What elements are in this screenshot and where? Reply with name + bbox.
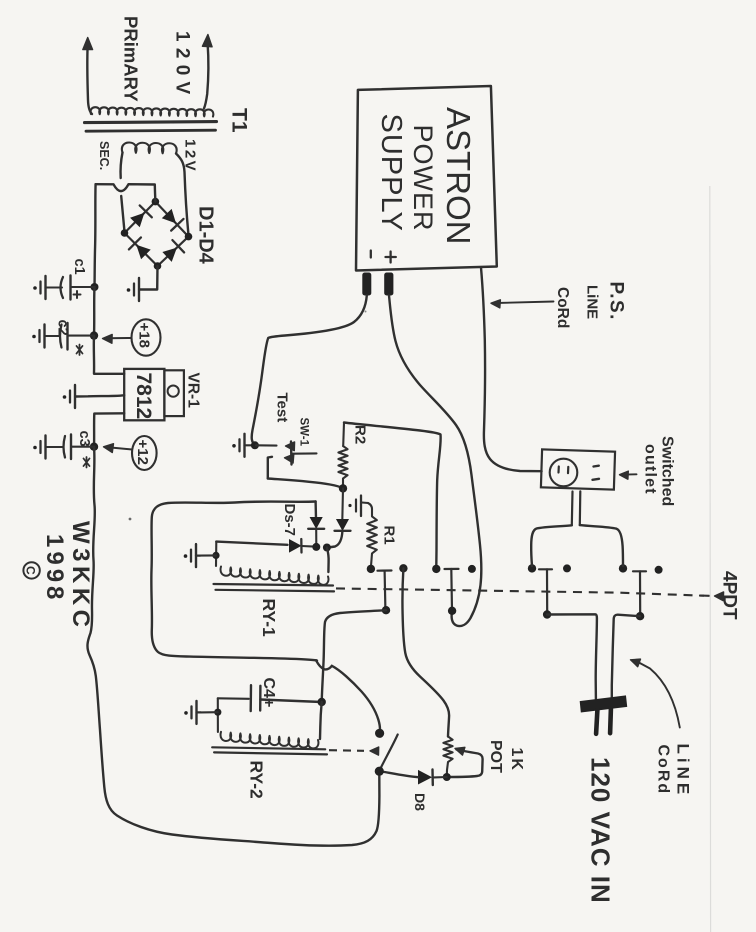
svg-text:VR-1: VR-1	[185, 373, 202, 409]
label RY-1	[259, 599, 279, 638]
arrow 4PDT	[700, 592, 724, 601]
wire 4PDT pole3 throw to line cord left	[547, 614, 597, 699]
label Ds-7	[281, 504, 298, 537]
label CoRd	[655, 745, 672, 796]
arrow P.S. line cord	[491, 300, 554, 308]
node 4PDT pole1 aux contact	[399, 564, 407, 572]
node RY-1 coil right 2	[323, 544, 331, 552]
regulator VR-1 body	[124, 369, 184, 420]
label SW-1	[298, 418, 310, 447]
node RY-2 switch top contact	[375, 729, 384, 738]
label W3KKC	[67, 521, 94, 632]
svg-text:Ds-7: Ds-7	[281, 504, 298, 537]
box switched outlet	[541, 449, 615, 489]
line cord plug body	[581, 696, 627, 712]
svg-text:1K: 1K	[508, 748, 525, 772]
svg-text:7812: 7812	[132, 373, 155, 420]
label +12 circled	[132, 436, 157, 470]
label +18 circled	[132, 319, 161, 355]
ground (bridge)	[127, 278, 140, 301]
label 7812	[132, 373, 155, 420]
label outlet	[642, 444, 659, 495]
label LiNE	[674, 744, 693, 799]
node C3 junction	[90, 443, 98, 451]
wire VR-1 output to C3	[94, 413, 124, 446]
node 4PDT pole1 throw	[382, 606, 390, 614]
label LiNE (P.S.)	[584, 285, 601, 319]
svg-text:+18: +18	[136, 323, 153, 348]
wire RY-2 coil left to ground	[201, 711, 218, 713]
switch 4PDT pole4 bar	[633, 571, 646, 615]
label 12V	[182, 139, 199, 173]
node RY-1 coil left	[212, 552, 219, 559]
node RY-2 coil junction	[318, 698, 326, 706]
wire from plus post to 4PDT pole2 bottom	[389, 296, 481, 627]
wire +12 rail down left side	[87, 447, 379, 846]
label C2	[55, 320, 71, 336]
label POWER	[408, 125, 438, 232]
wire diode to RY-1 coil node	[315, 529, 317, 545]
label copyright symbol	[23, 562, 39, 578]
svg-text:+12: +12	[134, 440, 151, 465]
potentiometer wiper arrow	[449, 747, 483, 777]
svg-text:4PDT: 4PDT	[719, 571, 740, 620]
node POT bottom junction	[443, 773, 451, 781]
node 4PDT pole4 common	[619, 564, 627, 572]
svg-text:C: C	[24, 566, 38, 575]
wire diode to RY-1 coil node	[328, 531, 342, 548]
label C3	[76, 431, 92, 447]
wire RY-1 loop top to diode	[314, 502, 317, 519]
switch 4PDT pole3 bar	[539, 569, 552, 613]
resistor R1	[367, 503, 377, 566]
label * (C3)	[84, 457, 90, 468]
node 4PDT pole2 aux contact	[468, 565, 476, 573]
capacitor C2	[45, 323, 94, 350]
label D1-D4	[195, 206, 217, 265]
transformer T1 primary lead right with arrow	[202, 35, 212, 109]
node 4PDT pole3 throw	[543, 610, 551, 618]
wire RY-2 coil top left	[218, 697, 249, 700]
arrow +18 to rail	[103, 334, 132, 343]
svg-text:120 VAC IN: 120 VAC IN	[586, 757, 616, 904]
node 4PDT pole3 aux contact	[563, 564, 571, 572]
svg-text:C4+: C4+	[260, 678, 277, 708]
svg-text:R2: R2	[352, 425, 369, 444]
node 4PDT pole1 common	[367, 565, 375, 573]
LED DS-7	[290, 539, 315, 553]
node R2 bottom junction	[339, 484, 347, 492]
svg-text:D1-D4: D1-D4	[195, 206, 217, 265]
wire secondary left lead	[121, 153, 123, 179]
node RY-1 coil right	[312, 543, 320, 551]
node bridge right	[185, 233, 193, 241]
arrow RY-2 actuator dashed	[329, 747, 379, 755]
switch SW-1 upper contact arrow	[256, 442, 295, 451]
switch SW-1 lower contact arrow	[268, 454, 294, 478]
svg-text:W3KKC: W3KKC	[67, 521, 94, 632]
diode (right, from R2 node)	[335, 520, 351, 531]
label ASTRON	[440, 107, 477, 245]
ground (C3)	[33, 436, 46, 459]
wire 4PDT pole4 throw to line cord right	[612, 615, 640, 699]
svg-text:c2: c2	[55, 320, 71, 336]
diode D8	[419, 770, 433, 786]
svg-text:outlet: outlet	[642, 444, 659, 495]
scan artifact line	[709, 186, 712, 932]
wire VR-1 ground pin	[76, 395, 124, 396]
capacitor C3	[46, 435, 94, 460]
svg-text:P.S.: P.S.	[606, 282, 627, 321]
label SEC.	[97, 141, 111, 170]
node RY-2 switch common	[375, 767, 384, 776]
ground (SW-1)	[232, 434, 255, 457]
svg-text:RY-1: RY-1	[259, 599, 279, 638]
ground (RY-1)	[184, 544, 200, 567]
label D8	[412, 793, 428, 811]
label C1	[71, 259, 87, 275]
svg-text:CoRd: CoRd	[554, 287, 571, 328]
node bridge left	[121, 229, 129, 237]
svg-text:Switched: Switched	[659, 436, 676, 506]
node 4PDT pole3 common	[528, 564, 536, 572]
node bridge top	[152, 198, 160, 206]
node RY-2 coil left	[214, 709, 221, 716]
svg-text:D8: D8	[412, 793, 428, 811]
svg-text:SEC.: SEC.	[97, 141, 111, 170]
relay RY-1 winding	[221, 567, 329, 585]
ground (VR-1)	[63, 385, 76, 408]
relay RY-1 coil right edge	[327, 548, 329, 573]
svg-text:c3: c3	[76, 431, 92, 447]
svg-text:SW-1: SW-1	[298, 418, 310, 447]
node 4PDT pole2 throw	[448, 607, 456, 615]
relay RY-2 core	[212, 747, 327, 754]
relay RY-1 coil left edge	[215, 542, 217, 566]
switch 4PDT actuator dashed line	[336, 588, 704, 595]
wire outlet left branch to 4PDT pole3	[531, 525, 572, 566]
svg-text:1 2 0 V: 1 2 0 V	[172, 31, 193, 95]
node SW-1 common	[251, 441, 259, 449]
relay RY-2 winding	[221, 732, 319, 749]
wire RY-1 loop (around relay)	[151, 502, 317, 661]
label T1	[228, 108, 251, 133]
wire RY-1 coil left to ground	[200, 554, 216, 556]
diode D1	[131, 205, 152, 226]
label P.S.	[606, 282, 627, 321]
switched outlet socket face	[550, 459, 578, 487]
label Test	[274, 393, 291, 423]
wire D8 to RY-2 switch common	[382, 772, 419, 778]
relay RY-1 core	[214, 584, 335, 591]
wire R2 node down to diode	[341, 488, 344, 520]
transformer T1 core	[85, 122, 217, 132]
diode D3	[129, 237, 150, 258]
switched outlet right slots	[593, 466, 600, 480]
label R1	[381, 526, 398, 545]
arrow line cord	[631, 659, 680, 727]
label SUPPLY	[375, 114, 407, 232]
label Primary	[121, 16, 142, 102]
svg-text:POT: POT	[487, 740, 504, 773]
wire outlet pigtails	[572, 491, 581, 525]
diode D2	[163, 210, 184, 231]
paper speck	[129, 311, 367, 521]
node 4PDT pole2 common	[432, 565, 440, 573]
transformer T1 secondary winding	[122, 142, 177, 153]
node 4PDT pole4 throw	[636, 612, 644, 620]
label + terminal	[386, 252, 396, 263]
wire P.S. line cord	[481, 268, 542, 472]
relay RY-2 coil left edge	[217, 698, 219, 732]
node C1 junction	[91, 283, 99, 291]
wire 4PDT pole1 throw to RY-2 coil	[322, 610, 386, 702]
arrow switched outlet	[620, 471, 637, 479]
node C2 junction	[90, 331, 98, 339]
svg-text:ASTRON: ASTRON	[440, 107, 477, 245]
label C4+	[260, 678, 277, 708]
wire R2 top to 4PDT pole2 common	[344, 423, 441, 567]
svg-text:RY-2: RY-2	[247, 761, 267, 800]
potentiometer 1K body	[443, 737, 452, 778]
svg-text:c1: c1	[71, 259, 87, 275]
label POT	[487, 740, 504, 773]
wire outlet right branch to 4PDT pole4	[580, 525, 623, 566]
label + (C1 polarity)	[74, 291, 81, 298]
label VR-1	[185, 373, 202, 409]
svg-text:R1: R1	[381, 526, 398, 545]
svg-text:1998: 1998	[41, 534, 68, 603]
node bridge bottom	[154, 262, 162, 270]
transformer T1 primary winding	[91, 107, 214, 116]
relay RY-2 coil right edge	[320, 702, 322, 739]
svg-text:LiNE: LiNE	[584, 285, 601, 319]
wire 4PDT contact to potentiometer	[402, 568, 449, 736]
resistor R2	[338, 423, 347, 489]
capacitor C4	[251, 685, 261, 711]
arrow +12 to rail	[104, 444, 133, 453]
ground (R1)	[348, 496, 368, 517]
label R2	[352, 425, 369, 444]
svg-text:Test: Test	[274, 393, 291, 423]
label 1998	[41, 534, 68, 603]
bridge edges D1-D4	[125, 202, 189, 266]
switch SW-1 bar and stem	[291, 442, 317, 465]
wire DC rail	[95, 184, 96, 287]
wire bridge bottom to ground	[140, 266, 158, 290]
switch RY-2 blade	[380, 735, 398, 770]
wire POT to D8	[434, 776, 447, 779]
wire rail C1-C2	[93, 287, 96, 336]
label Switched	[659, 436, 676, 506]
ground (C2)	[32, 325, 45, 348]
svg-text:CoRd: CoRd	[655, 745, 672, 796]
terminal post + (plus)	[384, 273, 393, 296]
wire loop to RY-2 switch top contact	[332, 666, 380, 734]
label * (C2)	[77, 345, 83, 356]
svg-text:PRimARY: PRimARY	[121, 16, 142, 102]
svg-text:POWER: POWER	[408, 125, 438, 232]
label - terminal	[370, 251, 372, 258]
diode (left, to RY-1 coil)	[308, 518, 324, 529]
wire RY-2 coil top right	[260, 700, 321, 703]
label CoRd (P.S.)	[554, 287, 571, 328]
label 4PDT	[719, 571, 740, 620]
svg-text:T1: T1	[228, 108, 251, 133]
capacitor C1	[46, 276, 95, 300]
switch 4PDT pole1 bar	[378, 571, 392, 610]
wire loop hop over pole1 wire	[316, 660, 332, 669]
label 120 V	[172, 31, 193, 95]
wire RY-1 coil top	[216, 542, 287, 545]
line cord plug prongs	[596, 709, 611, 734]
label RY-2	[247, 761, 267, 800]
ground (C1)	[33, 276, 46, 299]
transformer T1 primary lead left with arrow	[83, 38, 93, 115]
wire bridge top to DC rail with hop over secondary lead	[96, 184, 156, 201]
terminal post - (minus)	[362, 273, 371, 296]
svg-text:LiNE: LiNE	[674, 744, 693, 799]
wire secondary right lead to bridge right corner	[176, 154, 188, 234]
wire secondary left lead to bridge	[121, 196, 124, 230]
wire SW-1 lower contact to R2 bottom node	[268, 479, 343, 489]
label 120 VAC IN	[586, 757, 616, 904]
label 1K	[508, 748, 525, 772]
ground (RY-2)	[184, 701, 200, 724]
svg-text:SUPPLY: SUPPLY	[375, 114, 407, 232]
switch 4PDT pole2 bar	[445, 569, 459, 610]
node 4PDT pole4 aux contact	[655, 566, 663, 574]
diode D4	[163, 240, 184, 261]
wire rail C2 to VR-1 input	[94, 336, 124, 374]
wire from minus post to SW-1 node	[252, 296, 367, 446]
box Astron power supply	[356, 86, 497, 271]
